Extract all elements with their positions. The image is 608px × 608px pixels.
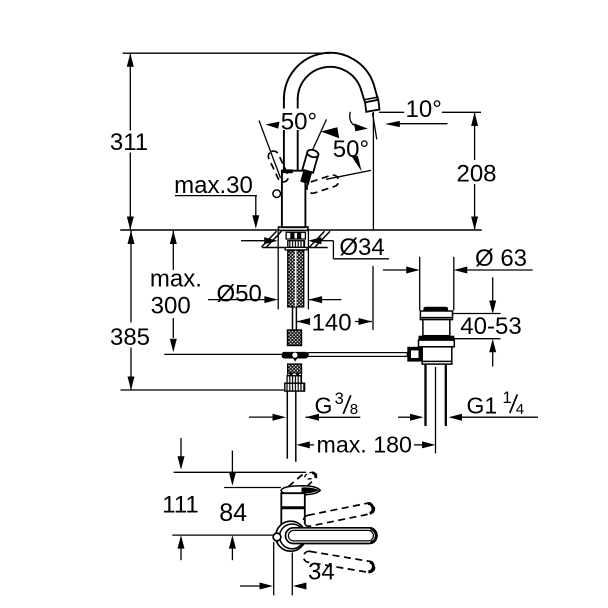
spout outlet tilted stream line (10 deg) bbox=[373, 113, 377, 139]
svg-text:max. 180: max. 180 bbox=[317, 432, 412, 458]
dimension 311 label bbox=[110, 129, 148, 156]
drain tailpipe bbox=[426, 364, 446, 453]
lever axis bottom reference line bbox=[172, 534, 272, 536]
plan view: dashed spout tube bbox=[288, 471, 317, 486]
svg-text:max.30: max.30 bbox=[174, 172, 253, 199]
dimension 385 vertical line bbox=[128, 231, 135, 391]
lower hose thread segment bbox=[288, 364, 302, 373]
mounting nut flange bbox=[285, 247, 307, 250]
50deg #1 arc arrows bbox=[265, 122, 339, 139]
svg-text:208: 208 bbox=[456, 161, 496, 188]
drain locknut dark band bbox=[419, 336, 455, 340]
dimension 208 vertical line bbox=[471, 112, 478, 230]
Ø50 extension lines bbox=[278, 231, 308, 310]
drain rod knob bbox=[407, 347, 422, 362]
111 top reference line bbox=[174, 471, 306, 473]
svg-text:3: 3 bbox=[335, 390, 344, 408]
svg-text:G: G bbox=[315, 393, 333, 419]
svg-text:300: 300 bbox=[151, 293, 191, 320]
spout outlet vertical reference line bbox=[372, 112, 374, 230]
svg-text:311: 311 bbox=[110, 129, 148, 156]
drain neck bbox=[423, 320, 450, 336]
threaded shank bbox=[288, 251, 304, 307]
drain plug top bbox=[423, 307, 448, 311]
drain flange bbox=[420, 311, 452, 320]
faucet spout riser inner line bbox=[297, 99, 299, 171]
dimension max.300 label bbox=[150, 265, 202, 319]
dimension 84 bbox=[219, 451, 247, 561]
svg-text:max.: max. bbox=[150, 265, 202, 292]
pop-up rod right section bbox=[308, 353, 407, 357]
supply pipes below nut bbox=[287, 391, 296, 461]
aerator bbox=[364, 97, 379, 112]
dimension max.300 vertical line bbox=[170, 231, 177, 353]
dimension 111 bbox=[162, 438, 198, 560]
svg-text:4: 4 bbox=[516, 401, 524, 418]
right dashed lever position bbox=[305, 174, 340, 195]
dimension max.30 label and leader bbox=[174, 172, 259, 229]
supply pipe below shank bbox=[293, 307, 297, 330]
plan view: solid lever bbox=[286, 528, 377, 544]
drain valve body bbox=[422, 347, 452, 364]
dimension max. 180 bbox=[296, 432, 435, 458]
svg-text:8: 8 bbox=[350, 401, 358, 418]
84 top reference line bbox=[224, 487, 281, 489]
deck / mounting surface line bbox=[121, 229, 481, 231]
lower hose nut bbox=[285, 383, 305, 391]
dimension 40-53 reference lines bbox=[450, 314, 501, 339]
svg-text:34: 34 bbox=[308, 559, 335, 586]
thread size G1 1/4 label bbox=[398, 389, 538, 421]
top reference line (spout height datum) bbox=[123, 52, 331, 54]
left dashed lever position bbox=[267, 149, 290, 183]
mounting nut (knurled) bbox=[288, 241, 305, 248]
svg-text:50°: 50° bbox=[333, 136, 369, 163]
dimension Ø34 label with leader box bbox=[241, 234, 389, 261]
drain flange extension lines bbox=[420, 257, 454, 311]
svg-text:111: 111 bbox=[162, 491, 198, 518]
svg-text:1: 1 bbox=[503, 389, 512, 407]
plan view: body circles bbox=[276, 521, 306, 551]
svg-text:10°: 10° bbox=[406, 96, 442, 123]
dimension 34 extension lines bbox=[274, 542, 293, 595]
140 right extension line bbox=[372, 266, 374, 330]
svg-text:50°: 50° bbox=[281, 108, 317, 135]
50deg #2 label bbox=[333, 136, 371, 163]
body side ring bbox=[273, 190, 281, 198]
deck cross-section hatching left bbox=[262, 232, 284, 248]
dimension 208 label bbox=[456, 161, 496, 188]
faucet spout inner arc bbox=[298, 67, 365, 102]
mounting O-ring block bbox=[286, 232, 305, 239]
50deg #1 left extension line bbox=[259, 121, 281, 179]
dimension 140 bbox=[297, 310, 372, 337]
50deg #2 leader and arrow bbox=[326, 156, 371, 179]
dimension 40-53 bbox=[460, 277, 521, 366]
dimension 311 vertical line bbox=[127, 53, 134, 230]
385 bottom reference line bbox=[121, 389, 285, 391]
pop-up rod clamp bbox=[282, 352, 308, 362]
svg-text:Ø50: Ø50 bbox=[217, 281, 262, 308]
plan view: upper dashed lever bbox=[303, 502, 376, 527]
drain locknut lower band bbox=[419, 340, 455, 347]
solid lever bbox=[299, 149, 320, 185]
faucet spout riser outer line bbox=[283, 99, 285, 171]
lower hose knurled band bbox=[287, 376, 302, 384]
faucet spout outer arc bbox=[284, 53, 378, 100]
svg-text:140: 140 bbox=[312, 310, 352, 337]
50deg #1 label bbox=[280, 108, 320, 135]
dimension Ø63 bbox=[383, 245, 533, 274]
thread size G3/8 label bbox=[249, 390, 360, 421]
plan view: faucet body bbox=[281, 493, 305, 524]
plan view: lower dashed lever bbox=[303, 550, 376, 573]
plan view: side knob circle bbox=[273, 533, 281, 541]
faucet base plate bbox=[279, 227, 308, 230]
upper hose thread segment bbox=[288, 330, 302, 346]
pop-up rod left section bbox=[164, 353, 281, 355]
lower hose seal band bbox=[288, 373, 302, 376]
dimension Ø50 label and arrows bbox=[208, 281, 341, 308]
svg-text:Ø34: Ø34 bbox=[339, 234, 384, 261]
svg-text:385: 385 bbox=[110, 324, 150, 351]
dimension 385 label bbox=[110, 324, 150, 351]
dimension 10 deg bbox=[350, 96, 481, 131]
dimension 34 bbox=[240, 559, 335, 590]
50deg #1 right extension line (lever axis) bbox=[305, 119, 327, 167]
svg-text:40-53: 40-53 bbox=[460, 313, 521, 340]
svg-text:G1: G1 bbox=[467, 393, 498, 419]
deck cross-section hatching right bbox=[308, 232, 330, 248]
faucet body bbox=[282, 169, 306, 227]
svg-text:Ø 63: Ø 63 bbox=[475, 245, 527, 272]
plan view: spout base lens bbox=[281, 486, 320, 495]
svg-text:84: 84 bbox=[219, 499, 247, 527]
